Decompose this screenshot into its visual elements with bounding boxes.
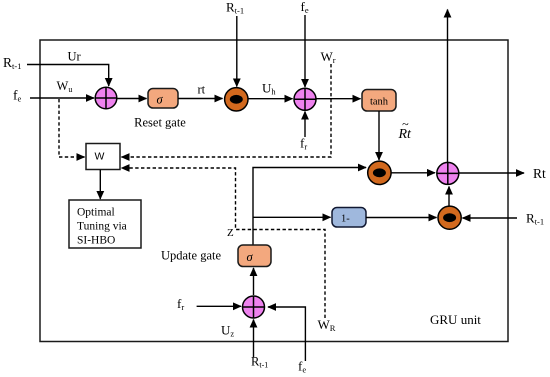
wire fr to adder2 (from below) bbox=[304, 112, 306, 138]
wire adder2 to tanh bbox=[316, 98, 361, 100]
wire sigma to reset product bbox=[178, 98, 223, 100]
sigma box update gate bbox=[238, 245, 271, 267]
sigma box reset gate bbox=[148, 89, 178, 109]
dashed wire WR / Z to W box bbox=[122, 168, 326, 318]
svg-text:Ur: Ur bbox=[68, 50, 82, 64]
wire product1 to adder2 bbox=[248, 98, 293, 100]
wire W to optimal tuning box bbox=[99, 170, 101, 199]
wire Rt-1 top to reset product bbox=[236, 16, 238, 87]
svg-text:Rt-1: Rt-1 bbox=[226, 0, 244, 16]
svg-text:Rt: Rt bbox=[533, 166, 546, 181]
dashed wire Wr to W box bbox=[122, 64, 332, 157]
svg-text:Uh: Uh bbox=[262, 81, 276, 97]
svg-text:Rt: Rt bbox=[398, 127, 413, 142]
wire adder4 to update sigma bbox=[253, 268, 255, 295]
svg-text:Rt-1: Rt-1 bbox=[251, 355, 268, 370]
tanh box bbox=[362, 90, 396, 112]
svg-text:σ: σ bbox=[247, 250, 254, 264]
wire 1- box to product3 bbox=[366, 217, 437, 219]
svg-text:fe: fe bbox=[301, 0, 309, 15]
svg-text:Wu: Wu bbox=[57, 79, 73, 94]
product node 3 (brown circle 3) bbox=[438, 206, 461, 229]
wire Rt-1 bottom to adder4 bbox=[253, 320, 255, 358]
product node reset (brown circle 1) bbox=[225, 88, 248, 111]
svg-text:GRU unit: GRU unit bbox=[430, 312, 481, 327]
svg-text:Rt-1: Rt-1 bbox=[526, 211, 544, 227]
wire adder1 to sigma reset bbox=[117, 98, 147, 100]
svg-text:1-: 1- bbox=[341, 214, 350, 225]
product node 2 (brown circle 2) bbox=[368, 161, 391, 184]
wire product2 to adder3 bbox=[391, 172, 435, 174]
svg-text:W: W bbox=[95, 151, 105, 163]
svg-text:Reset gate: Reset gate bbox=[134, 116, 186, 130]
wire Rt-1 right input to product3 bbox=[463, 217, 518, 219]
adder node 2 (pink circle 2) bbox=[294, 88, 316, 110]
adder node 4 (pink circle 4) bbox=[243, 296, 265, 318]
svg-text:Uz: Uz bbox=[221, 323, 234, 339]
wire fr to adder4 bbox=[197, 305, 241, 307]
svg-text:WR: WR bbox=[318, 317, 336, 333]
GRU unit outer box bbox=[40, 40, 508, 342]
wire adder3 output Rt bbox=[459, 172, 524, 174]
wire Ur (Rt-1 left to reset adder) bbox=[27, 65, 109, 87]
adder node reset gate (pink circle 1) bbox=[95, 87, 117, 109]
wire update sigma to product2 bbox=[253, 168, 366, 246]
svg-text:tanh: tanh bbox=[370, 97, 389, 108]
svg-text:fr: fr bbox=[300, 136, 307, 152]
svg-text:Update gate: Update gate bbox=[161, 249, 221, 263]
adder node 3 (pink circle 3) bbox=[437, 162, 459, 184]
svg-text:rt: rt bbox=[198, 83, 206, 97]
svg-text:Wr: Wr bbox=[321, 49, 336, 65]
wire fe top to adder2 bbox=[304, 15, 306, 87]
wire fe to reset adder bbox=[30, 97, 94, 99]
W box bbox=[86, 144, 120, 170]
svg-text:fr: fr bbox=[177, 296, 184, 312]
wire adder3 up output bbox=[447, 10, 449, 163]
wire fe bottom to adder4 bbox=[268, 307, 305, 361]
wire product3 up to adder3 bbox=[448, 187, 450, 206]
svg-text:σ: σ bbox=[157, 93, 164, 107]
optimal tuning box bbox=[69, 200, 141, 248]
svg-text:Z: Z bbox=[227, 227, 234, 239]
svg-text:Rt-1: Rt-1 bbox=[3, 55, 21, 71]
svg-text:fe: fe bbox=[13, 88, 22, 104]
dashed wire fe to W box bbox=[59, 99, 85, 157]
wire branch to 1- box bbox=[253, 216, 331, 218]
one-minus box bbox=[332, 208, 366, 228]
svg-text:Optimal: Optimal bbox=[77, 207, 115, 219]
svg-text:SI-HBO: SI-HBO bbox=[77, 235, 115, 247]
wire tanh to product2 bbox=[378, 111, 380, 160]
svg-text:Tuning via: Tuning via bbox=[77, 221, 127, 233]
